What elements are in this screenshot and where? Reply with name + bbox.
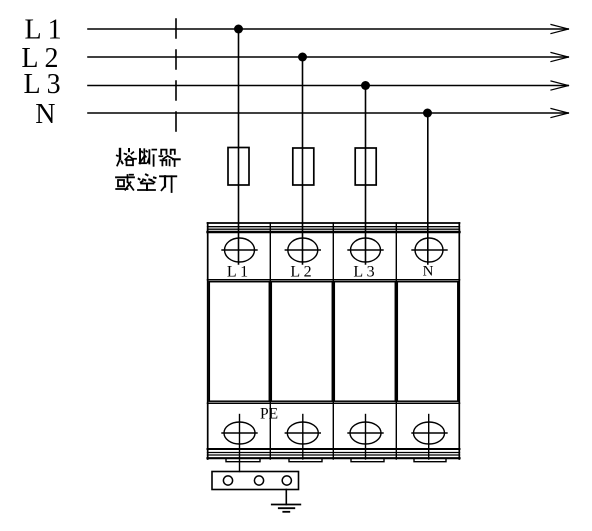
wire drop N to SPD bbox=[427, 113, 429, 264]
terminal T4 bottom bbox=[412, 415, 447, 460]
terminal T3 bottom bbox=[348, 415, 383, 460]
char 断 bbox=[140, 149, 157, 166]
terminal T3 top bbox=[348, 238, 383, 262]
char 器 bbox=[159, 150, 179, 166]
SPD outer case left edge bbox=[207, 223, 209, 459]
terminal T2 top bbox=[285, 238, 320, 262]
svg-text:L 3: L 3 bbox=[353, 264, 374, 281]
terminal T1 top (ellipse + cross) bbox=[222, 238, 257, 262]
SPD bottom rail lines bbox=[208, 449, 460, 458]
node junction dot N bbox=[423, 109, 432, 118]
fuse F1 bbox=[228, 148, 249, 186]
dashed disconnect boundary line bbox=[175, 19, 177, 134]
char 空 bbox=[138, 175, 156, 191]
earth bus bar bbox=[212, 472, 299, 490]
arrowhead N bbox=[551, 109, 569, 118]
arrowhead L3 bbox=[551, 81, 569, 90]
hand-drawn CJK text line 1: 熔断器 (fuse) bbox=[117, 149, 180, 166]
node junction dot L3 bbox=[361, 81, 370, 90]
SPD outer case right edge bbox=[458, 223, 460, 459]
SPD module separator 1-2 bbox=[269, 223, 271, 459]
module 3 mounting foot bbox=[351, 459, 384, 462]
wire bus bar to earth bbox=[285, 490, 287, 505]
hand-drawn CJK text line 2: 或空开 (or breaker) bbox=[116, 175, 176, 193]
module 1 mounting foot bbox=[226, 459, 260, 462]
SPD module separator 3-4 bbox=[395, 223, 397, 459]
svg-text:L 1: L 1 bbox=[227, 264, 248, 281]
SPD divider under top terminals bbox=[208, 279, 460, 281]
ground symbol bbox=[272, 505, 301, 512]
terminal T4 top bbox=[412, 238, 447, 262]
bus bar hole 1 bbox=[223, 476, 232, 485]
SPD top mounting rail lines bbox=[208, 223, 460, 232]
SPD module 4 body bbox=[397, 282, 458, 402]
svg-text:N: N bbox=[35, 99, 55, 130]
module 2 mounting foot bbox=[289, 459, 322, 462]
SPD module 1 body bbox=[209, 282, 269, 402]
node junction dot L2 bbox=[298, 53, 307, 62]
fuse F2 bbox=[293, 148, 314, 185]
wire drop L3 to SPD bbox=[365, 86, 367, 265]
wire line L3 bbox=[88, 85, 568, 87]
svg-text:L 3: L 3 bbox=[24, 69, 61, 100]
arrowhead L2 bbox=[551, 53, 569, 62]
svg-text:N: N bbox=[423, 264, 434, 280]
svg-text:L 1: L 1 bbox=[25, 14, 62, 45]
SPD module 3 body bbox=[334, 282, 395, 402]
fuse F3 bbox=[355, 148, 376, 185]
terminal T2 bottom bbox=[285, 415, 320, 460]
wire drop L2 to SPD bbox=[302, 57, 304, 264]
char 熔 bbox=[117, 149, 136, 166]
wire line L1 bbox=[88, 28, 568, 30]
svg-text:L 2: L 2 bbox=[290, 264, 311, 281]
bus bar hole 2 bbox=[254, 476, 263, 485]
terminal T1 bottom (PE) bbox=[222, 415, 257, 472]
SPD module 2 body bbox=[271, 282, 332, 402]
char 开 bbox=[160, 176, 176, 192]
wire line N bbox=[88, 112, 568, 114]
svg-text:PE: PE bbox=[260, 406, 278, 423]
bus bar hole 3 bbox=[282, 476, 291, 485]
SPD divider above bottom terminals bbox=[208, 402, 460, 404]
SPD module separator 2-3 bbox=[332, 223, 334, 459]
node junction dot L1 bbox=[234, 25, 243, 34]
arrowhead L1 bbox=[551, 25, 569, 34]
wire line L2 bbox=[88, 56, 568, 58]
char 或 bbox=[116, 175, 134, 190]
wire drop L1 to SPD bbox=[238, 29, 240, 264]
module 4 mounting foot bbox=[414, 459, 446, 462]
